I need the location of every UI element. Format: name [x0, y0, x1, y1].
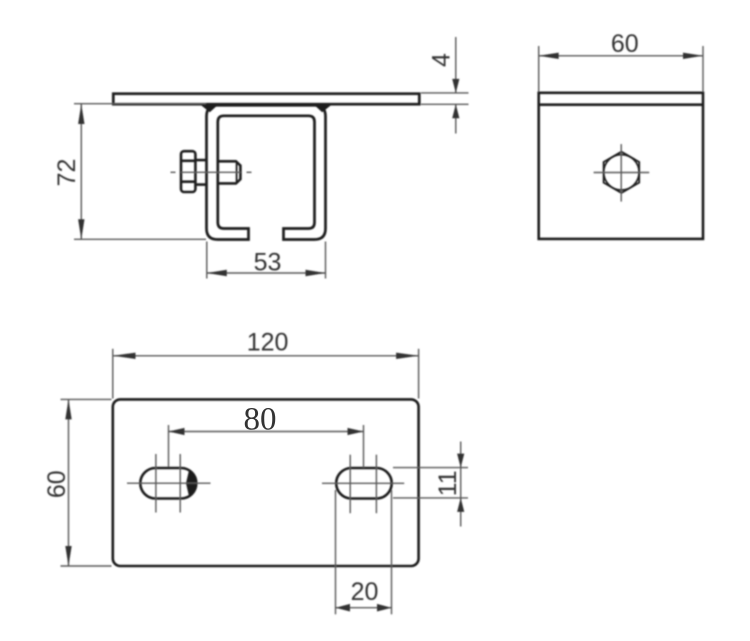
- dimension 20 (slot length): [336, 490, 392, 614]
- plan view: base plate outline: [113, 399, 419, 566]
- svg-text:72: 72: [53, 159, 81, 187]
- left slot centerlines: [127, 454, 211, 513]
- side view: bolt centerline crosshair: [594, 144, 650, 202]
- weld fillet left: [200, 105, 218, 113]
- weld fillet right: [314, 105, 332, 113]
- dimension 60 (side view width): [539, 46, 703, 92]
- svg-text:53: 53: [254, 249, 282, 277]
- side view: hex bolt head with chamfer circle: [604, 152, 640, 193]
- plan view: left slotted hole: [140, 468, 196, 499]
- ext lines: [74, 103, 206, 105]
- right slot centerlines: [322, 455, 404, 514]
- bolt shank through channel wall: [195, 160, 206, 185]
- dark arrowhead artifact at right end of left slot: [186, 470, 196, 496]
- svg-text:60: 60: [43, 470, 71, 498]
- dim line: [80, 104, 82, 239]
- dimension 4 (plate thickness): [421, 37, 469, 134]
- dimension 60 (plate depth): [61, 399, 112, 566]
- dimension 120 (plate length): [113, 349, 419, 399]
- front view: C-channel rail profile: [207, 105, 326, 239]
- svg-text:80: 80: [244, 402, 277, 438]
- bolt centerline: [171, 171, 252, 173]
- svg-text:120: 120: [247, 329, 289, 357]
- dimension 53 (channel width): [207, 242, 326, 279]
- dimension 80 lines (slot spacing): [169, 425, 364, 468]
- bolt head (hex, side view): [181, 151, 195, 192]
- dimension 72 (bracket height): [74, 104, 206, 240]
- svg-text:11: 11: [434, 470, 462, 496]
- svg-text:20: 20: [351, 578, 379, 606]
- dimension 11 (slot width): [393, 442, 468, 527]
- bolt threaded end inside channel: [218, 161, 240, 183]
- svg-text:60: 60: [611, 30, 639, 58]
- plan view: right slotted hole: [336, 468, 392, 499]
- side view: bracket body outline: [539, 93, 703, 239]
- svg-text:4: 4: [427, 53, 455, 67]
- front view: top mounting plate: [113, 94, 419, 105]
